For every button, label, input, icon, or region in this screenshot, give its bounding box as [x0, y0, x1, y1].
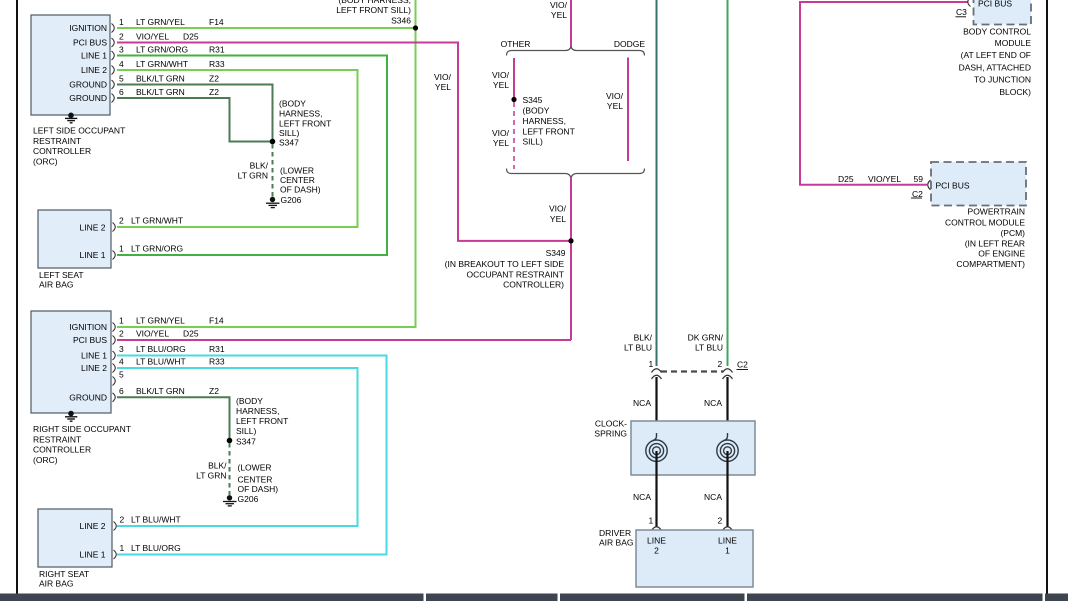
- svg-text:59: 59: [914, 174, 924, 184]
- svg-text:POWERTRAIN: POWERTRAIN: [968, 207, 1025, 217]
- label VIO/YEL on vertical: [434, 72, 452, 92]
- wire DK GRN/LT BLU vertical: [727, 0, 729, 366]
- svg-text:2: 2: [120, 515, 125, 525]
- label S347 location: [279, 99, 331, 148]
- label DRIVER AIR BAG: [599, 528, 633, 548]
- svg-text:R33: R33: [209, 59, 225, 69]
- svg-text:LT BLU: LT BLU: [695, 342, 723, 352]
- svg-text:LINE: LINE: [718, 536, 737, 546]
- svg-text:LT BLU/WHT: LT BLU/WHT: [131, 515, 181, 525]
- svg-text:CLOCK-: CLOCK-: [595, 419, 627, 429]
- svg-text:GROUND: GROUND: [69, 93, 107, 103]
- label S346: [336, 0, 411, 26]
- svg-text:Z2: Z2: [209, 386, 219, 396]
- connector U1 LEFT SIDE OCCUPANT RESTRAINT CONTROLLER box: [31, 15, 110, 115]
- svg-text:IGNITION: IGNITION: [69, 322, 107, 332]
- svg-text:HARNESS,: HARNESS,: [236, 406, 279, 416]
- svg-text:NCA: NCA: [704, 492, 722, 502]
- svg-text:LINE 1: LINE 1: [80, 250, 106, 260]
- label VIO/YEL dodge: [606, 91, 624, 111]
- svg-text:LINE 1: LINE 1: [81, 51, 107, 61]
- label VIO/YEL: [492, 70, 510, 90]
- splice S347 (right section): [227, 438, 233, 444]
- label LEFT SEAT AIR BAG: [39, 270, 84, 290]
- clockspring coil 2: [717, 433, 738, 461]
- svg-text:HARNESS,: HARNESS,: [279, 109, 322, 119]
- svg-text:(ORC): (ORC): [33, 156, 58, 166]
- wire label LT GRN/YEL F14: [136, 17, 224, 27]
- svg-text:BLK/LT GRN: BLK/LT GRN: [136, 386, 185, 396]
- ground symbol under U1: [65, 113, 77, 123]
- svg-text:CONTROLLER): CONTROLLER): [503, 280, 564, 290]
- label BLK/LT GRN: [196, 461, 227, 481]
- svg-text:SILL): SILL): [279, 128, 299, 138]
- wire LT BLU/ORG pin3 to right seat airbag: [117, 356, 387, 555]
- label CLOCKSPRING: [594, 419, 627, 439]
- svg-text:TO JUNCTION: TO JUNCTION: [974, 75, 1031, 85]
- splice S349: [568, 238, 573, 243]
- right seat airbag pin connectors: [114, 522, 117, 560]
- svg-text:LT GRN/ORG: LT GRN/ORG: [136, 45, 188, 55]
- svg-text:BODY CONTROL: BODY CONTROL: [963, 26, 1031, 36]
- svg-text:LT GRN: LT GRN: [238, 171, 268, 181]
- svg-text:R31: R31: [209, 344, 225, 354]
- wire VIO/YEL other-branch solid: [513, 58, 515, 100]
- clockspring coil 1: [646, 433, 667, 461]
- svg-text:OF ENGINE: OF ENGINE: [978, 249, 1025, 259]
- driver airbag connector arcs: [652, 527, 733, 531]
- label C3: [956, 7, 968, 17]
- label C2: [737, 360, 749, 370]
- svg-text:1: 1: [725, 546, 730, 556]
- svg-text:LINE 1: LINE 1: [81, 351, 107, 361]
- label S345 location: [523, 95, 575, 147]
- svg-text:IGNITION: IGNITION: [69, 23, 107, 33]
- svg-text:BLK/LT GRN: BLK/LT GRN: [136, 87, 185, 97]
- svg-text:CONTROLLER: CONTROLLER: [33, 445, 91, 455]
- svg-text:R33: R33: [209, 357, 225, 367]
- svg-text:LT GRN: LT GRN: [196, 471, 226, 481]
- svg-text:2: 2: [718, 359, 723, 369]
- wire NCA 1 lower: [655, 451, 657, 527]
- svg-text:(IN BREAKOUT TO LEFT SIDE: (IN BREAKOUT TO LEFT SIDE: [445, 259, 565, 269]
- svg-text:LT BLU/ORG: LT BLU/ORG: [131, 543, 181, 553]
- svg-text:SPRING: SPRING: [594, 428, 627, 438]
- svg-text:BLK/: BLK/: [250, 161, 269, 171]
- wire label BLK/LT GRN Z2 pin6: [136, 87, 219, 97]
- svg-text:2: 2: [718, 516, 723, 526]
- svg-text:SILL): SILL): [523, 137, 543, 147]
- svg-text:D25: D25: [183, 329, 199, 339]
- svg-text:LEFT SEAT: LEFT SEAT: [39, 270, 84, 280]
- ground symbol under U2: [65, 411, 77, 422]
- svg-text:PCI BUS: PCI BUS: [978, 0, 1012, 9]
- svg-text:COMPARTMENT): COMPARTMENT): [956, 259, 1025, 269]
- label U2 name: [33, 424, 131, 465]
- wire label VIO/YEL D25: [136, 329, 199, 339]
- svg-text:(BODY: (BODY: [523, 106, 550, 116]
- svg-text:SILL): SILL): [236, 426, 256, 436]
- svg-text:LT BLU/WHT: LT BLU/WHT: [136, 357, 186, 367]
- wire dashed BLK/LT GRN to G206: [272, 144, 274, 197]
- wire label BLK/LT GRN Z2: [136, 386, 219, 396]
- svg-text:LINE 2: LINE 2: [80, 223, 106, 233]
- svg-text:2: 2: [119, 32, 124, 42]
- wire LT GRN/ORG pin3 to left seat airbag: [117, 56, 387, 256]
- svg-text:LT BLU/ORG: LT BLU/ORG: [136, 344, 186, 354]
- wire NCA 2 lower: [726, 451, 728, 527]
- wire label LT GRN/YEL F14: [136, 316, 224, 326]
- svg-text:DK GRN/: DK GRN/: [688, 332, 724, 342]
- diagram left border: [16, 0, 18, 594]
- svg-text:VIO/: VIO/: [550, 0, 568, 10]
- svg-text:D25: D25: [838, 174, 854, 184]
- svg-text:R31: R31: [209, 45, 225, 55]
- wire dashed BLK/LT GRN to G206-2: [229, 443, 231, 495]
- component RIGHT SEAT AIR BAG box: [38, 509, 112, 567]
- svg-text:LEFT FRONT SILL): LEFT FRONT SILL): [336, 5, 411, 15]
- svg-text:OCCUPANT RESTRAINT: OCCUPANT RESTRAINT: [467, 269, 564, 279]
- module PCM PCI BUS box: [931, 162, 1026, 206]
- svg-text:LT GRN/YEL: LT GRN/YEL: [136, 316, 185, 326]
- wire VIO/YEL brace to ORC2 pin2 level: [570, 178, 572, 340]
- svg-text:(BODY: (BODY: [236, 396, 263, 406]
- svg-text:VIO/: VIO/: [492, 128, 510, 138]
- svg-text:5: 5: [119, 370, 124, 380]
- label BLK/LT GRN: [238, 161, 269, 181]
- svg-text:Z2: Z2: [209, 87, 219, 97]
- svg-text:YEL: YEL: [551, 10, 567, 20]
- label VIO/YEL top: [550, 0, 568, 20]
- svg-text:1: 1: [120, 543, 125, 553]
- connector C2 arcs wire 1: [652, 369, 662, 379]
- wire BLK/LT GRN pin6 to S347-2: [117, 397, 230, 439]
- wire LT GRN/YEL pin1 to S346 vertical: [117, 0, 416, 327]
- svg-text:RESTRAINT: RESTRAINT: [33, 136, 81, 146]
- svg-text:DASH, ATTACHED: DASH, ATTACHED: [959, 62, 1031, 72]
- wire NCA 2 upper: [726, 377, 728, 436]
- wire BLK/LT BLU vertical: [656, 0, 658, 366]
- label RIGHT SEAT AIR BAG: [39, 569, 89, 589]
- svg-text:D25: D25: [183, 32, 199, 42]
- svg-text:AIR BAG: AIR BAG: [39, 280, 73, 290]
- wire label BLK/LT GRN Z2 pin5: [136, 74, 219, 84]
- svg-text:(LOWER: (LOWER: [238, 462, 272, 472]
- svg-text:CONTROLLER: CONTROLLER: [33, 146, 91, 156]
- label G206 location: [280, 166, 321, 195]
- svg-text:OF DASH): OF DASH): [238, 484, 279, 494]
- label BLK/LT BLU: [624, 332, 653, 352]
- BCM connector arc: [968, 0, 971, 7]
- svg-text:VIO/: VIO/: [606, 91, 624, 101]
- svg-text:LINE 2: LINE 2: [81, 363, 107, 373]
- svg-text:2: 2: [119, 216, 124, 226]
- svg-text:YEL: YEL: [435, 82, 451, 92]
- svg-text:5: 5: [119, 74, 124, 84]
- wire label LT BLU/WHT R33: [136, 357, 225, 367]
- svg-text:6: 6: [119, 386, 124, 396]
- svg-text:VIO/YEL: VIO/YEL: [868, 174, 901, 184]
- label S347-2 location: [236, 396, 288, 447]
- svg-text:LEFT FRONT: LEFT FRONT: [523, 127, 575, 137]
- component DRIVER AIR BAG box: [636, 530, 753, 587]
- svg-text:VIO/: VIO/: [492, 70, 510, 80]
- wire label LT BLU/ORG R31: [136, 344, 225, 354]
- svg-text:OTHER: OTHER: [501, 39, 531, 49]
- wire VIO/YEL pin2 to S349: [117, 43, 569, 241]
- ground G206-2: [223, 495, 237, 506]
- svg-text:BLK/: BLK/: [634, 332, 653, 342]
- splice S347: [270, 139, 276, 145]
- svg-text:(LOWER: (LOWER: [280, 166, 314, 176]
- svg-text:DODGE: DODGE: [614, 39, 646, 49]
- svg-text:CONTROL MODULE: CONTROL MODULE: [945, 218, 1025, 228]
- svg-text:C3: C3: [956, 7, 967, 17]
- wire label VIO/YEL D25: [136, 32, 199, 42]
- svg-text:G206: G206: [281, 195, 302, 205]
- svg-text:PCI BUS: PCI BUS: [936, 181, 970, 191]
- svg-text:S347: S347: [279, 138, 299, 148]
- svg-text:CENTER: CENTER: [280, 175, 315, 185]
- svg-text:G206: G206: [238, 494, 259, 504]
- svg-text:AIR BAG: AIR BAG: [39, 579, 73, 589]
- svg-text:BLK/: BLK/: [208, 461, 227, 471]
- svg-text:LT BLU: LT BLU: [624, 342, 652, 352]
- svg-text:LEFT FRONT: LEFT FRONT: [236, 416, 288, 426]
- wire NCA 1 upper: [655, 377, 657, 436]
- wire label D25 VIO/YEL 59: [838, 174, 923, 184]
- svg-text:F14: F14: [209, 316, 224, 326]
- connector U2 RIGHT SIDE OCCUPANT RESTRAINT CONTROLLER box: [31, 311, 111, 413]
- left seat airbag pin connectors: [113, 223, 116, 260]
- svg-text:YEL: YEL: [493, 138, 509, 148]
- svg-text:S347: S347: [236, 437, 256, 447]
- label LINE 1 (driver): [718, 536, 737, 556]
- svg-text:2: 2: [654, 546, 659, 556]
- svg-text:LEFT FRONT: LEFT FRONT: [279, 119, 331, 129]
- svg-text:VIO/YEL: VIO/YEL: [136, 32, 169, 42]
- label VIO/YEL above S349: [549, 204, 567, 225]
- svg-text:PCI BUS: PCI BUS: [73, 38, 107, 48]
- svg-text:BLOCK): BLOCK): [999, 87, 1031, 97]
- svg-text:LT GRN/WHT: LT GRN/WHT: [136, 59, 188, 69]
- component LEFT SEAT AIR BAG box: [38, 210, 111, 268]
- wire label LT GRN/ORG R31: [136, 45, 225, 55]
- svg-text:RIGHT SEAT: RIGHT SEAT: [39, 569, 89, 579]
- svg-text:F14: F14: [209, 17, 224, 27]
- svg-text:YEL: YEL: [550, 214, 566, 224]
- wire VIO/YEL dodge-branch: [627, 58, 629, 162]
- svg-text:(PCM): (PCM): [1000, 228, 1025, 238]
- label DK GRN/LT BLU: [688, 332, 724, 352]
- wire VIO/YEL U2 pin2 to S349 vertical: [117, 339, 571, 341]
- svg-text:MODULE: MODULE: [995, 38, 1032, 48]
- connector C2 arcs wire 2: [723, 369, 733, 379]
- svg-text:S345: S345: [523, 95, 543, 105]
- bottom brace: [507, 169, 645, 179]
- bottom taskbar: [0, 594, 1068, 601]
- svg-text:AIR BAG: AIR BAG: [599, 537, 633, 547]
- svg-text:2: 2: [119, 329, 124, 339]
- splice S346: [413, 25, 418, 30]
- svg-text:LEFT SIDE OCCUPANT: LEFT SIDE OCCUPANT: [33, 126, 125, 136]
- U2 pin connectors: [113, 323, 116, 402]
- svg-text:Z2: Z2: [209, 74, 219, 84]
- svg-text:OF DASH): OF DASH): [280, 185, 321, 195]
- svg-text:1: 1: [649, 359, 654, 369]
- label LINE 2 (driver): [647, 536, 666, 556]
- svg-text:S346: S346: [391, 16, 411, 26]
- label BODY CONTROL MODULE: [959, 26, 1032, 97]
- svg-text:1: 1: [119, 17, 124, 27]
- wire VIO/YEL from top to brace: [570, 0, 572, 47]
- svg-text:S349: S349: [546, 248, 566, 258]
- svg-text:PCI BUS: PCI BUS: [73, 335, 107, 345]
- svg-text:3: 3: [119, 45, 124, 55]
- splice S345: [511, 97, 516, 102]
- svg-text:(ORC): (ORC): [33, 455, 58, 465]
- module BCM PCI BUS box: [974, 0, 1032, 25]
- svg-text:VIO/YEL: VIO/YEL: [136, 329, 169, 339]
- svg-text:YEL: YEL: [493, 80, 509, 90]
- PCM connector arc: [928, 180, 931, 190]
- svg-text:RIGHT SIDE OCCUPANT: RIGHT SIDE OCCUPANT: [33, 424, 131, 434]
- U1 pin connectors: [112, 24, 115, 103]
- svg-text:BLK/LT GRN: BLK/LT GRN: [136, 74, 185, 84]
- svg-text:LT GRN/ORG: LT GRN/ORG: [131, 244, 183, 254]
- wire LT BLU/WHT pin4 to right seat airbag: [117, 368, 358, 526]
- svg-text:NCA: NCA: [704, 398, 722, 408]
- wire BLK/LT GRN pin6 to S347: [117, 98, 270, 142]
- svg-text:1: 1: [119, 316, 124, 326]
- svg-text:NCA: NCA: [633, 492, 651, 502]
- wire LT GRN/WHT pin4 to left seat airbag: [117, 70, 358, 227]
- wire BLK/LT GRN pin5 to S347: [117, 85, 273, 141]
- component CLOCKSPRING box: [631, 421, 755, 475]
- svg-text:LT GRN/WHT: LT GRN/WHT: [131, 216, 183, 226]
- top brace: [507, 46, 645, 56]
- wire label LT GRN/WHT R33: [136, 59, 225, 69]
- svg-text:C2: C2: [737, 360, 748, 370]
- svg-text:CENTER: CENTER: [238, 474, 273, 484]
- svg-text:HARNESS,: HARNESS,: [523, 116, 566, 126]
- svg-text:(IN LEFT REAR: (IN LEFT REAR: [965, 239, 1025, 249]
- svg-text:3: 3: [119, 344, 124, 354]
- ground G206: [266, 197, 280, 208]
- svg-text:LT GRN/YEL: LT GRN/YEL: [136, 17, 185, 27]
- svg-text:4: 4: [119, 59, 124, 69]
- svg-text:(AT LEFT END OF: (AT LEFT END OF: [961, 50, 1031, 60]
- svg-text:4: 4: [119, 357, 124, 367]
- svg-text:LINE 2: LINE 2: [80, 521, 106, 531]
- svg-text:LINE 2: LINE 2: [81, 65, 107, 75]
- svg-text:DRIVER: DRIVER: [599, 528, 631, 538]
- svg-text:LINE: LINE: [647, 536, 666, 546]
- label G206-2 location: [238, 462, 279, 494]
- wire VIO/YEL dashed below S345: [513, 102, 515, 169]
- svg-text:NCA: NCA: [633, 398, 651, 408]
- svg-text:GROUND: GROUND: [69, 392, 107, 402]
- label VIO/YEL below S345: [492, 128, 510, 148]
- svg-text:6: 6: [119, 87, 124, 97]
- label C2 (PCM): [911, 189, 923, 199]
- label POWERTRAIN CONTROL MODULE: [945, 207, 1025, 270]
- label S349: [445, 248, 566, 290]
- svg-text:GROUND: GROUND: [69, 80, 107, 90]
- wire VIO/YEL BCM to PCM: [800, 2, 969, 185]
- svg-text:YEL: YEL: [607, 101, 623, 111]
- svg-text:1: 1: [649, 516, 654, 526]
- svg-text:1: 1: [119, 244, 124, 254]
- svg-text:(BODY: (BODY: [279, 99, 306, 109]
- svg-text:LINE 1: LINE 1: [80, 550, 106, 560]
- connector C2 dashed line: [661, 370, 723, 372]
- svg-text:C2: C2: [912, 189, 923, 199]
- svg-text:VIO/: VIO/: [549, 204, 567, 214]
- label U1 name: [33, 126, 125, 167]
- svg-text:VIO/: VIO/: [434, 72, 452, 82]
- svg-text:RESTRAINT: RESTRAINT: [33, 434, 81, 444]
- diagram right border: [1046, 0, 1048, 594]
